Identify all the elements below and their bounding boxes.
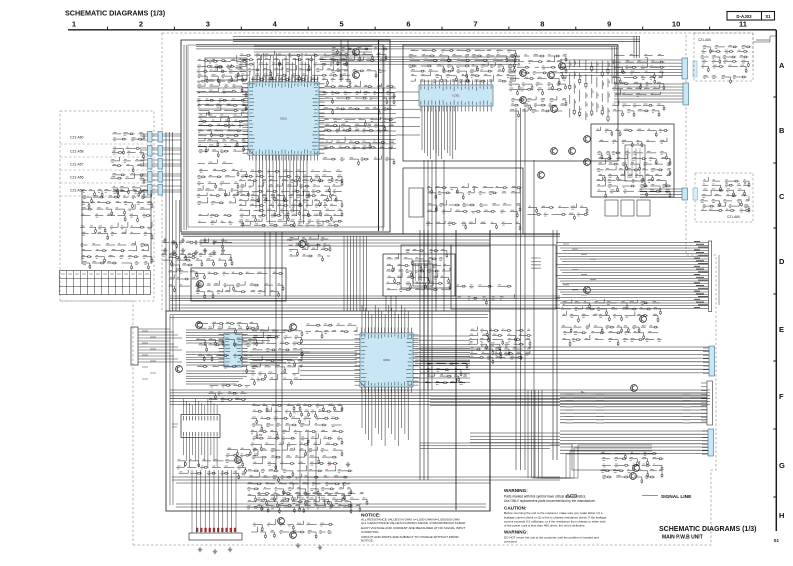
svg-text:WARNING:: WARNING:	[504, 530, 528, 535]
wire bundle left of IC501	[198, 88, 248, 147]
bundle below IC601	[362, 387, 408, 446]
cluster top right of bottom block	[561, 299, 662, 347]
sub box top-left of micom	[205, 58, 247, 80]
svg-text:1: 1	[72, 20, 76, 29]
wire bundle right of IC501	[319, 88, 396, 148]
cluster above IC301	[408, 50, 516, 83]
right top connector strip 2	[683, 83, 689, 105]
bus corner to strip G	[532, 454, 652, 478]
right connector strip CZ1-A61	[709, 346, 715, 376]
mid transistor group	[538, 172, 545, 179]
cluster mid bottom	[250, 405, 343, 470]
cluster below dip connector	[176, 461, 246, 479]
svg-text:NOTICE.: NOTICE.	[361, 538, 374, 542]
bus bundle to right strips row F	[560, 394, 707, 423]
svg-text:DO NOT return the unit to the: DO NOT return the unit to the customer u…	[504, 535, 599, 539]
svg-text:SCHEMATIC DIAGRAMS (1/3): SCHEMATIC DIAGRAMS (1/3)	[659, 526, 756, 533]
IC701 dip connector box	[181, 415, 220, 438]
svg-text:F: F	[779, 392, 784, 401]
component cluster above IC501	[238, 51, 351, 85]
feeder bus micom to analog block	[320, 57, 520, 64]
verticals above IC501 right corner	[341, 40, 348, 82]
svg-text:IC501: IC501	[280, 117, 287, 121]
transistor Q801	[640, 316, 647, 323]
bus bundle to right strips row E-F	[420, 347, 709, 373]
component cluster right of IC501	[323, 81, 395, 166]
transistor Q802	[631, 385, 638, 392]
bundle above IC601	[362, 305, 408, 333]
verticals bottom block lower half	[300, 432, 316, 505]
fan-out group 2 from left connector	[186, 352, 310, 365]
long bus corner bottom-left	[172, 476, 560, 478]
right top connector strip	[682, 58, 688, 79]
power sub box	[591, 124, 674, 197]
cluster micom box left-bottom	[197, 159, 239, 222]
net label rows right of IC601	[468, 327, 531, 365]
parts row bottom center	[257, 493, 368, 512]
cluster right of IC601 parts	[425, 363, 468, 383]
bus loop above micom	[233, 37, 640, 42]
reset sub box	[383, 254, 455, 296]
svg-text:S1: S1	[765, 14, 771, 19]
svg-text:of the power cord is less than: of the power cord is less than 460 ohms,…	[504, 524, 585, 528]
dashed box CZ1-A65	[694, 33, 753, 81]
pin voltage table	[60, 271, 151, 295]
transistor Q303	[548, 72, 555, 79]
cluster around Q301-Q305	[508, 55, 567, 118]
vertical bundle right of IC601 down	[528, 390, 542, 478]
svg-text:CONDITION.: CONDITION.	[361, 530, 379, 534]
cluster bottom band left of notice	[251, 519, 333, 539]
svg-text:2: 2	[139, 20, 143, 29]
svg-text:A: A	[779, 61, 785, 70]
svg-text:9: 9	[607, 20, 611, 29]
svg-text:CZ1-A56: CZ1-A56	[70, 176, 84, 180]
long horizontal bus mid	[170, 390, 710, 405]
svg-text:5: 5	[340, 20, 344, 29]
svg-text:B+: B+	[581, 390, 585, 394]
svg-text:WARNING:: WARNING:	[504, 488, 528, 493]
svg-text:8: 8	[540, 20, 544, 29]
transistor Q304	[559, 63, 566, 70]
wire stub top right corner	[753, 36, 776, 42]
row E-F bundle left extension	[250, 352, 357, 363]
analog block outline	[403, 45, 618, 161]
bus lines above transistor pair bottom-right	[420, 443, 550, 449]
net labels on row F bundle	[566, 394, 690, 423]
bus bundle to right strips row G	[560, 431, 708, 453]
lower-left sub box of analog block	[403, 168, 523, 234]
transistor Q502	[353, 72, 360, 79]
svg-text:CZ1-A57: CZ1-A57	[70, 163, 84, 167]
net labels inside row D box	[531, 258, 541, 268]
vertical bundle feeding IC601 from micom	[344, 236, 366, 311]
svg-text:CAUTION:: CAUTION:	[504, 506, 527, 511]
svg-text:11: 11	[739, 20, 747, 29]
inner IC footprint in power box	[625, 145, 645, 181]
cluster micom box right-top corner	[331, 48, 388, 78]
dashed board outline	[162, 32, 753, 34]
right connector strip CZ1-A62	[707, 381, 713, 425]
resistor bank columns	[569, 59, 609, 122]
svg-text:3: 3	[206, 20, 210, 29]
svg-text:ALL CAPACITANCE VALUES IN MICR: ALL CAPACITANCE VALUES IN MICRO FARAD. P…	[361, 521, 466, 525]
dashed box CZ1-A66	[695, 173, 753, 222]
labels on row D bundle	[563, 244, 596, 300]
svg-text:S1: S1	[774, 538, 780, 543]
transistor Q705	[235, 457, 242, 464]
component cluster below IC501	[239, 170, 343, 227]
cluster around IC701	[196, 323, 259, 374]
transistor Q706	[278, 518, 285, 525]
fan-out to right connector CZ1-A64	[560, 60, 682, 76]
svg-text:CZ1-A66: CZ1-A66	[727, 215, 740, 219]
horizontal bus mid sheet	[200, 240, 490, 246]
cluster between IC701 and IC601	[250, 327, 303, 386]
right mid connector strip	[682, 188, 688, 200]
dashed connector-area box left	[60, 111, 154, 301]
IC501 microcomputer	[248, 82, 319, 155]
sub box row D left	[401, 245, 451, 288]
IC601 main processor	[360, 333, 413, 387]
row D right sub box	[451, 245, 556, 309]
bottom block inner verticals	[420, 230, 428, 480]
transistor Q302	[520, 97, 527, 104]
transistor Q702	[176, 366, 183, 373]
transistor Q305	[551, 106, 558, 113]
svg-text:IC301: IC301	[453, 94, 460, 98]
right border rule	[775, 30, 777, 531]
bottom block outline	[166, 311, 490, 511]
svg-text:5V: 5V	[287, 238, 291, 242]
transistor Q501	[353, 49, 360, 56]
cluster right of dip connector	[226, 450, 258, 457]
micom block outline	[181, 40, 390, 232]
IC701 small driver	[224, 333, 242, 367]
cluster below mid transistors	[527, 204, 588, 221]
IC footprint in row D sub box	[413, 261, 430, 283]
svg-text:SCHEMATIC DIAGRAMS (1/3): SCHEMATIC DIAGRAMS (1/3)	[65, 9, 166, 18]
svg-text:6: 6	[406, 20, 410, 29]
svg-text:CZ1-A65: CZ1-A65	[698, 38, 711, 42]
transistor Q572	[299, 241, 306, 248]
component cluster left of IC501	[196, 55, 247, 157]
wire bundle below IC301	[422, 106, 456, 159]
wire bundle above IC501	[254, 53, 315, 82]
cluster right of resistor bank	[612, 56, 665, 117]
left inner bus of micom block	[184, 45, 186, 230]
fan-out group 1 from left connector	[186, 330, 290, 343]
svg-text:CZ1-A58: CZ1-A58	[70, 150, 84, 154]
remote sensor sub-circuit	[80, 191, 153, 270]
row D connector strip	[709, 241, 712, 312]
svg-text:CZ1-A59: CZ1-A59	[70, 189, 84, 193]
transistor Q707	[290, 532, 297, 539]
cluster above front connector	[247, 465, 353, 513]
wire bundle below IC501	[256, 155, 307, 224]
svg-text:CIRCUIT AND PARTS ARE SUBJECT: CIRCUIT AND PARTS ARE SUBJECT TO CHANGE …	[361, 535, 459, 539]
dark vertical bus right side of micom box	[378, 40, 380, 231]
svg-text:H: H	[779, 511, 784, 520]
svg-text:MAIN P.W.B UNIT: MAIN P.W.B UNIT	[662, 535, 703, 541]
svg-text:SIGNAL LINE: SIGNAL LINE	[661, 494, 692, 500]
bundle left of IC601	[300, 340, 360, 380]
grounds bottom	[198, 547, 202, 552]
svg-text:corrected.: corrected.	[504, 540, 518, 544]
capacitor group with grounds	[163, 238, 166, 243]
dark bus pair below micom block	[181, 233, 560, 235]
transistor Q571	[197, 281, 204, 288]
IC301 display driver	[419, 85, 493, 106]
transistor Q301	[520, 70, 527, 77]
svg-text:Use ONLY replacement parts rec: Use ONLY replacement parts recommended b…	[504, 499, 596, 503]
right connector strip CZ1-A63	[708, 429, 714, 456]
svg-text:5V: 5V	[328, 462, 332, 466]
transistor Q701	[196, 322, 203, 329]
cluster left inner bottom block	[168, 257, 199, 293]
left vertical bus from connectors to bottom block	[166, 132, 172, 311]
svg-text:CZ1-A60: CZ1-A60	[70, 136, 84, 140]
cluster bottom block upper band	[305, 324, 357, 338]
svg-text:7: 7	[473, 20, 477, 29]
front connector with red pin labels	[196, 528, 236, 532]
cluster under comb left	[209, 385, 250, 401]
sheet number box D-AJ03 / S1	[727, 12, 775, 21]
svg-text:10: 10	[672, 20, 680, 29]
bundle right of IC601	[413, 336, 470, 382]
signal bundle to right pin list (row D)	[556, 243, 709, 309]
bus loop above micom second tier	[196, 45, 618, 49]
vertical bus lines below micom block	[265, 232, 270, 296]
svg-text:C: C	[779, 192, 785, 201]
left edge connector of bottom block	[131, 327, 138, 365]
left connector labels	[142, 331, 156, 379]
svg-text:E: E	[779, 325, 784, 334]
svg-text:D: D	[779, 257, 785, 266]
svg-text:5V: 5V	[259, 433, 263, 437]
svg-text:D-AJ03: D-AJ03	[736, 14, 752, 19]
component rects below power box	[605, 200, 618, 216]
transistors bottom right pair	[633, 465, 640, 472]
svg-text:G: G	[779, 461, 785, 470]
fan-out group 3 from left connector	[186, 371, 255, 384]
row D connector vertical label	[718, 255, 720, 305]
svg-text:IC601: IC601	[383, 358, 390, 362]
signal line legend	[642, 495, 658, 497]
transistor Q703	[290, 324, 297, 331]
IC701 label	[172, 424, 178, 427]
svg-text:B: B	[779, 126, 785, 135]
top border rule	[68, 29, 776, 31]
bottom block inner edge lines	[170, 315, 488, 318]
regulator box	[191, 268, 286, 301]
long verticals center	[424, 160, 432, 390]
bus lines above bottom block	[170, 296, 560, 300]
